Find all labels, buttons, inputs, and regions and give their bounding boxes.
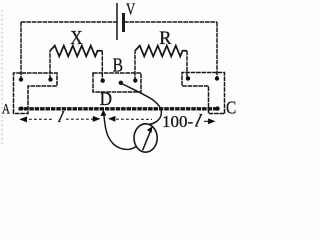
- svg-text:R: R: [159, 28, 172, 49]
- svg-text:C: C: [226, 97, 236, 117]
- svg-text:D: D: [100, 89, 112, 110]
- svg-text:B: B: [113, 55, 123, 76]
- svg-text:100-: 100-: [162, 112, 194, 131]
- svg-text:A: A: [2, 102, 10, 118]
- svg-text:V: V: [126, 0, 136, 19]
- svg-text:l: l: [56, 109, 66, 126]
- svg-text:X: X: [70, 27, 83, 49]
- svg-text:l: l: [193, 111, 204, 131]
